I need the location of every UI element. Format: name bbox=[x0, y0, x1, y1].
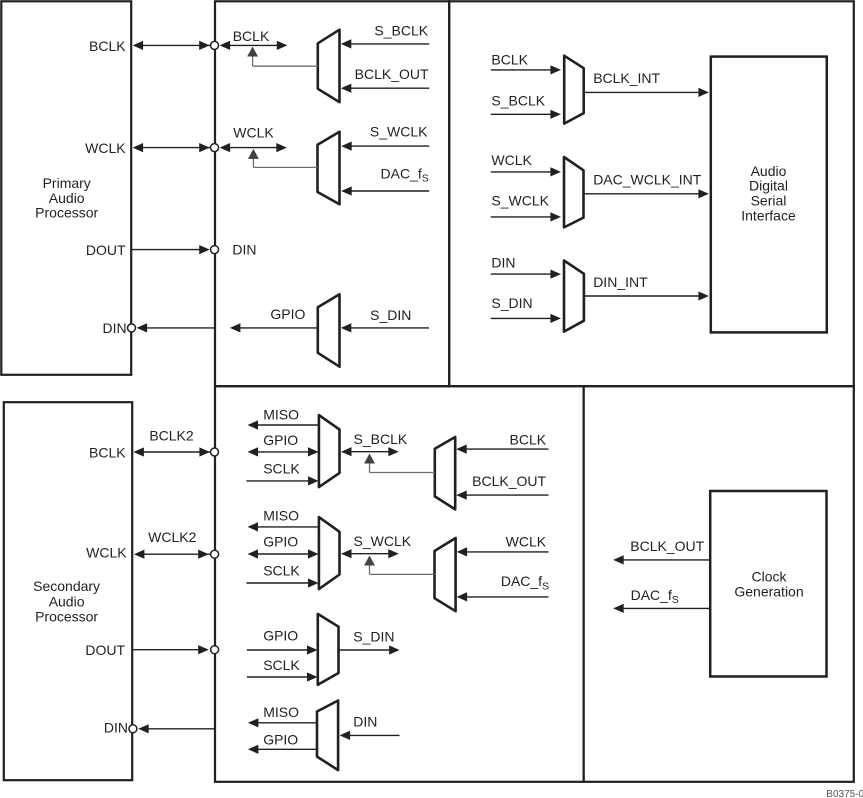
svg-text:BCLK: BCLK bbox=[510, 431, 547, 447]
svg-text:SCLK: SCLK bbox=[263, 461, 300, 477]
svg-text:MISO: MISO bbox=[263, 704, 299, 720]
svg-text:S_DIN: S_DIN bbox=[353, 629, 394, 645]
svg-text:SCLK: SCLK bbox=[263, 657, 300, 673]
svg-text:S_BCLK: S_BCLK bbox=[491, 93, 545, 109]
svg-text:GPIO: GPIO bbox=[263, 432, 298, 448]
svg-text:DOUT: DOUT bbox=[85, 642, 125, 658]
svg-text:S_BCLK: S_BCLK bbox=[354, 431, 408, 447]
svg-text:B0375-01: B0375-01 bbox=[826, 789, 863, 798]
svg-text:DIN: DIN bbox=[104, 720, 128, 736]
svg-text:BCLK_OUT: BCLK_OUT bbox=[472, 473, 546, 489]
svg-text:DIN_INT: DIN_INT bbox=[593, 274, 648, 290]
svg-text:BCLK_OUT: BCLK_OUT bbox=[630, 538, 704, 554]
svg-text:GPIO: GPIO bbox=[263, 731, 298, 747]
svg-text:GPIO: GPIO bbox=[270, 306, 305, 322]
svg-text:WCLK: WCLK bbox=[506, 533, 547, 549]
svg-text:Audio: Audio bbox=[49, 593, 85, 609]
svg-text:S_WCLK: S_WCLK bbox=[370, 124, 428, 140]
svg-text:Audio: Audio bbox=[751, 163, 787, 179]
svg-text:BCLK2: BCLK2 bbox=[149, 427, 194, 443]
svg-text:Clock: Clock bbox=[751, 568, 787, 584]
svg-text:BCLK_INT: BCLK_INT bbox=[593, 70, 660, 86]
svg-text:Interface: Interface bbox=[741, 207, 796, 223]
svg-text:BCLK: BCLK bbox=[491, 51, 528, 67]
svg-text:Processor: Processor bbox=[35, 608, 98, 624]
svg-text:Primary: Primary bbox=[43, 175, 91, 191]
svg-text:DAC_WCLK_INT: DAC_WCLK_INT bbox=[593, 171, 702, 187]
svg-text:DIN: DIN bbox=[353, 713, 377, 729]
svg-text:BCLK: BCLK bbox=[233, 28, 270, 44]
svg-text:DIN: DIN bbox=[102, 320, 126, 336]
svg-text:MISO: MISO bbox=[263, 406, 299, 422]
svg-text:Secondary: Secondary bbox=[33, 578, 100, 594]
svg-text:Digital: Digital bbox=[749, 178, 788, 194]
svg-text:WCLK: WCLK bbox=[233, 124, 274, 140]
svg-text:GPIO: GPIO bbox=[263, 533, 298, 549]
svg-text:WCLK2: WCLK2 bbox=[148, 529, 196, 545]
svg-text:GPIO: GPIO bbox=[263, 628, 298, 644]
svg-text:DIN: DIN bbox=[491, 255, 515, 271]
svg-text:S_WCLK: S_WCLK bbox=[491, 193, 549, 209]
svg-text:S_BCLK: S_BCLK bbox=[374, 22, 428, 38]
svg-text:WCLK: WCLK bbox=[85, 140, 126, 156]
svg-text:Generation: Generation bbox=[734, 583, 803, 599]
svg-text:BCLK: BCLK bbox=[89, 38, 126, 54]
svg-text:DIN: DIN bbox=[232, 242, 256, 258]
svg-text:DOUT: DOUT bbox=[86, 242, 126, 258]
svg-text:S_DIN: S_DIN bbox=[491, 295, 532, 311]
svg-text:Serial: Serial bbox=[751, 193, 787, 209]
svg-text:WCLK: WCLK bbox=[86, 545, 127, 561]
svg-text:S_DIN: S_DIN bbox=[370, 307, 411, 323]
svg-text:BCLK: BCLK bbox=[89, 444, 126, 460]
svg-text:MISO: MISO bbox=[263, 508, 299, 524]
svg-text:WCLK: WCLK bbox=[491, 152, 532, 168]
svg-text:Audio: Audio bbox=[49, 190, 85, 206]
svg-text:BCLK_OUT: BCLK_OUT bbox=[355, 66, 429, 82]
svg-text:S_WCLK: S_WCLK bbox=[354, 533, 412, 549]
svg-text:SCLK: SCLK bbox=[263, 562, 300, 578]
svg-text:Processor: Processor bbox=[35, 205, 98, 221]
